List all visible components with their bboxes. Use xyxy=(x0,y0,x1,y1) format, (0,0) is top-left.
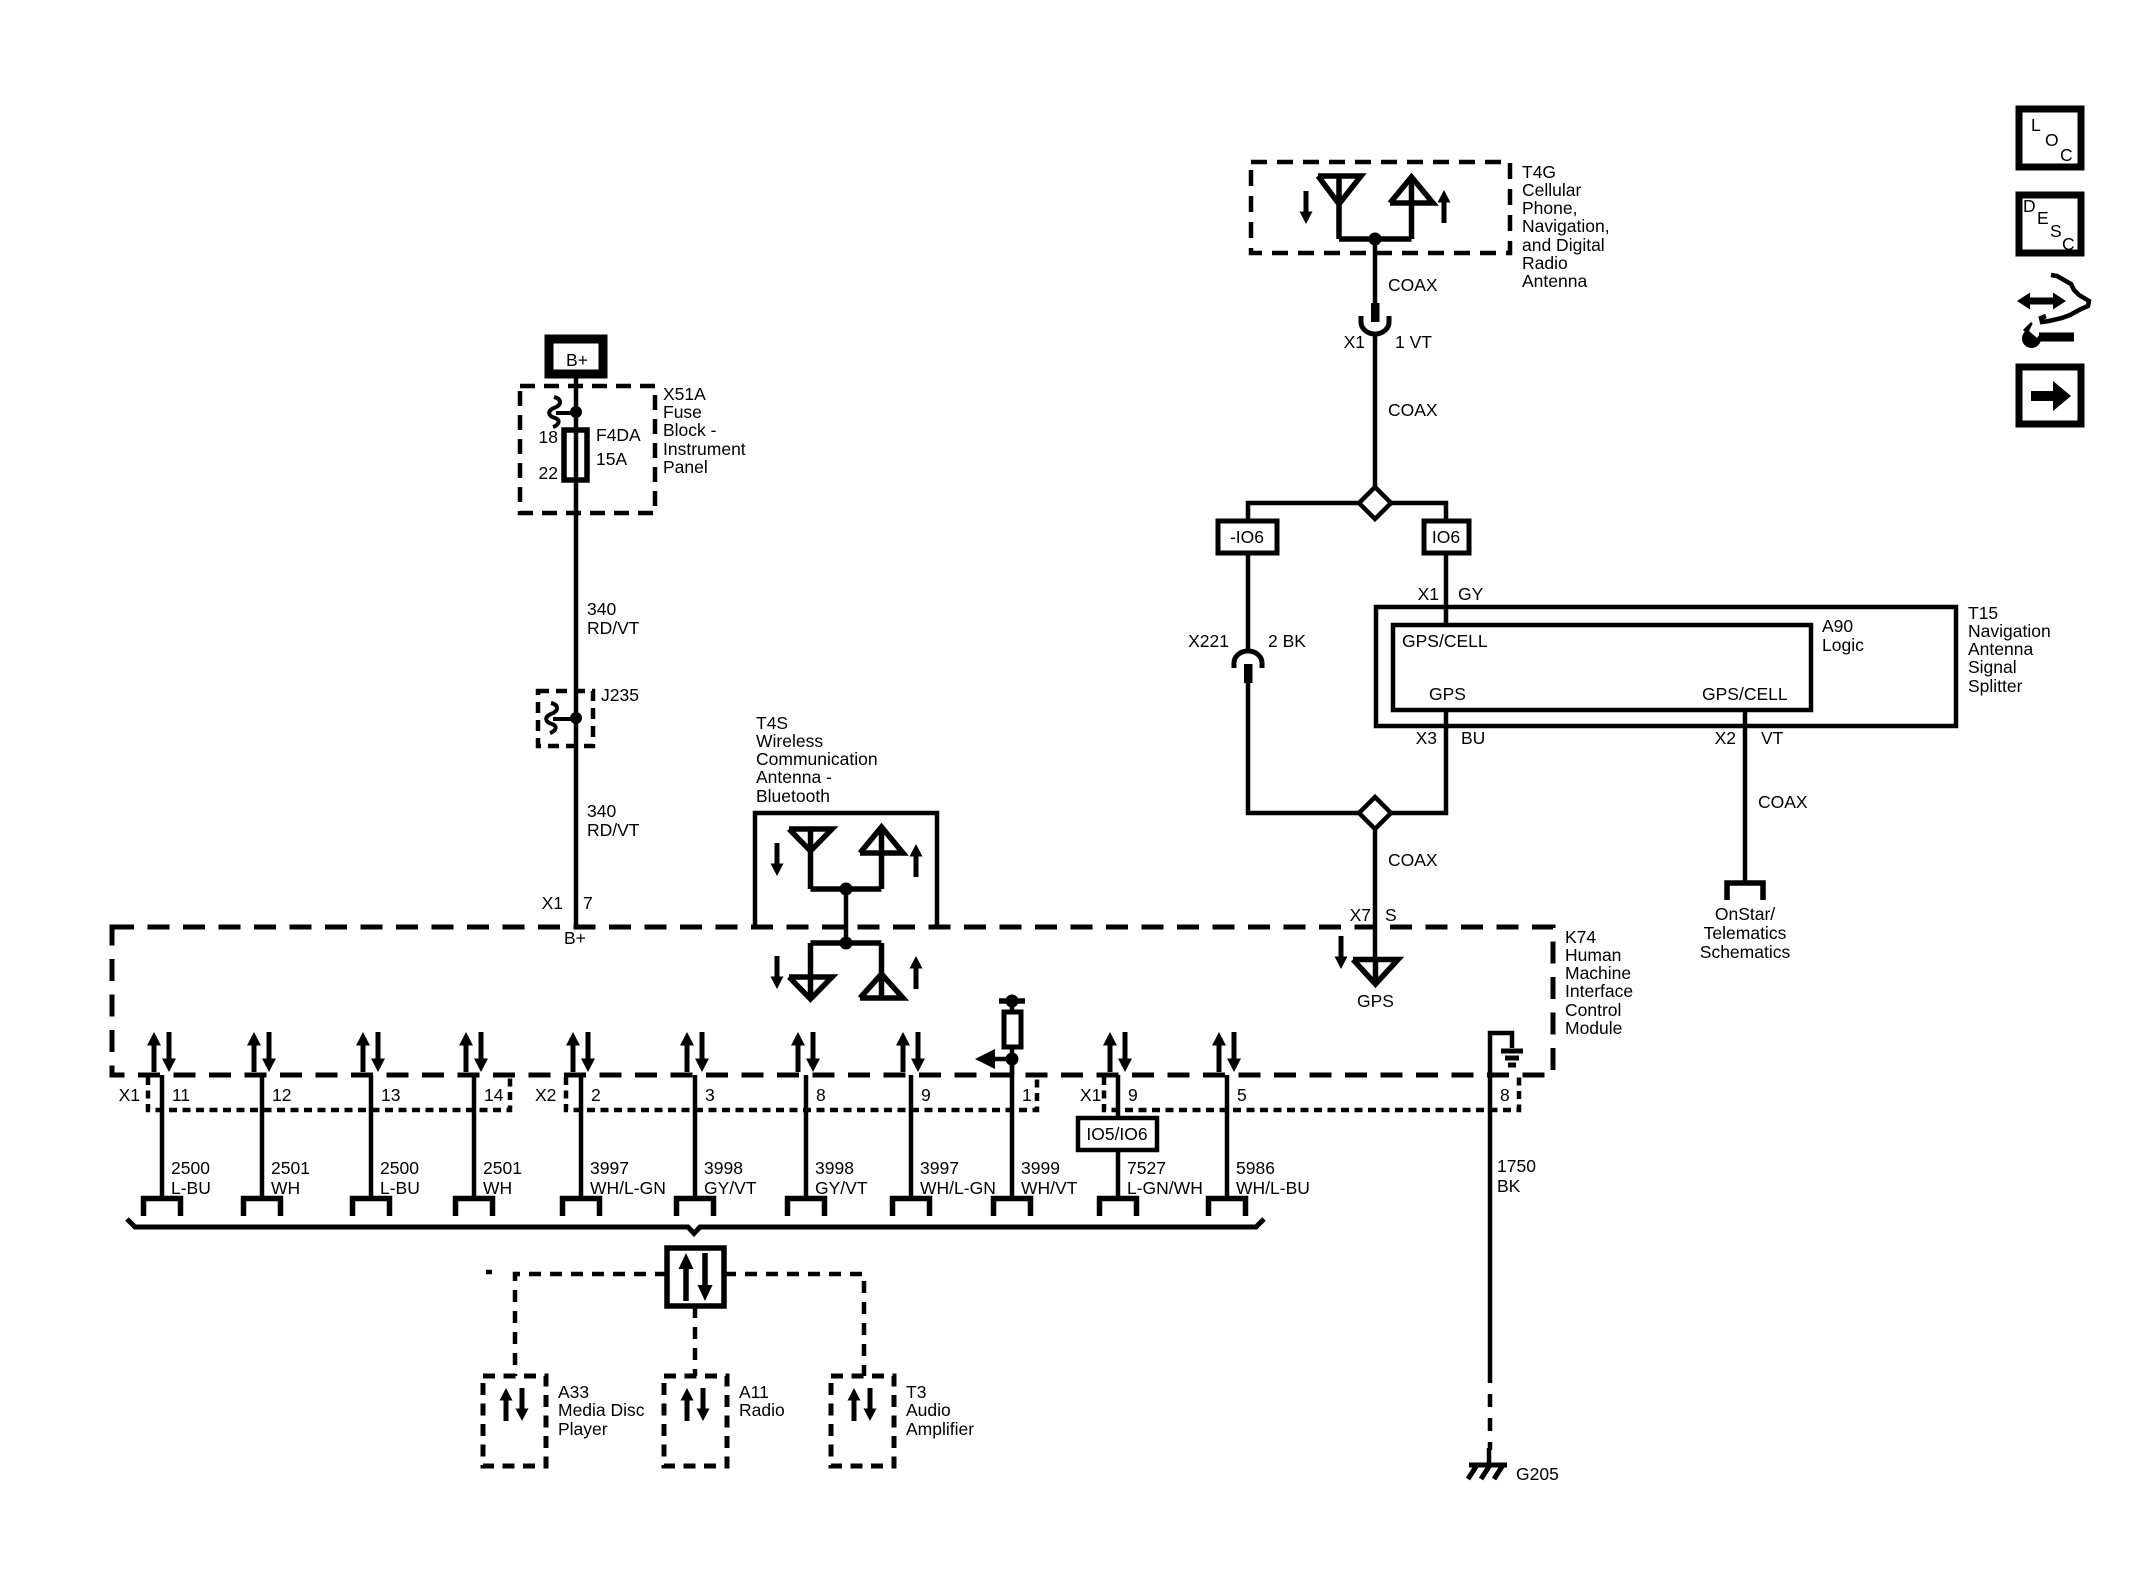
svg-text:1750: 1750 xyxy=(1497,1156,1536,1176)
svg-text:2501: 2501 xyxy=(483,1158,522,1178)
svg-text:Schematics: Schematics xyxy=(1700,942,1791,962)
svg-text:Machine: Machine xyxy=(1565,963,1631,983)
svg-text:GY/VT: GY/VT xyxy=(815,1178,868,1198)
svg-text:1 VT: 1 VT xyxy=(1395,332,1432,352)
dashed data links xyxy=(515,1274,667,1376)
svg-text:T15: T15 xyxy=(1968,603,1998,623)
svg-text:RD/VT: RD/VT xyxy=(587,618,640,638)
T4S up arrow xyxy=(910,844,923,877)
connector strip X1 (second) xyxy=(1104,1077,1519,1110)
wire IO6 to T15 xyxy=(1444,553,1449,626)
T4G up arrow xyxy=(1438,190,1451,223)
svg-text:22: 22 xyxy=(539,463,558,483)
svg-text:X1: X1 xyxy=(542,893,563,913)
svg-text:Amplifier: Amplifier xyxy=(906,1419,974,1439)
module K74 dashed box xyxy=(112,927,1553,1075)
svg-text:X1: X1 xyxy=(119,1085,140,1105)
svg-text:8: 8 xyxy=(1500,1085,1510,1105)
svg-text:X1: X1 xyxy=(1418,584,1439,604)
svg-text:Telematics: Telematics xyxy=(1704,923,1787,943)
svg-text:Antenna -: Antenna - xyxy=(756,767,832,787)
svg-text:9: 9 xyxy=(921,1085,931,1105)
off-page bracket to OnStar xyxy=(1727,883,1763,900)
junction diamond (top) xyxy=(1359,487,1391,519)
pin 5 wire 5986 WH/L-BU xyxy=(1225,1075,1230,1197)
svg-text:Instrument: Instrument xyxy=(663,439,746,459)
pin 2 wire 3997 WH/L-GN xyxy=(579,1075,584,1197)
svg-text:340: 340 xyxy=(587,599,616,619)
svg-text:A90: A90 xyxy=(1822,616,1853,636)
svg-text:WH/L-GN: WH/L-GN xyxy=(920,1178,996,1198)
svg-text:T4G: T4G xyxy=(1522,162,1556,182)
svg-text:C: C xyxy=(2060,145,2073,165)
svg-text:X51A: X51A xyxy=(663,384,706,404)
svg-text:GY/VT: GY/VT xyxy=(704,1178,757,1198)
resistor (termination) xyxy=(1004,1012,1021,1047)
svg-text:GPS/CELL: GPS/CELL xyxy=(1702,684,1788,704)
B+ power symbol xyxy=(549,339,603,374)
T4G transmit antenna symbol xyxy=(1390,177,1433,239)
GPS down arrow xyxy=(1335,936,1348,969)
svg-text:1: 1 xyxy=(1022,1085,1032,1105)
svg-text:Communication: Communication xyxy=(756,749,878,769)
junction diamond (bottom) xyxy=(1359,797,1391,829)
wire X2 VT xyxy=(1743,710,1748,883)
K74 internal receive antenna xyxy=(789,943,832,999)
pin 8 wire 3998 GY/VT xyxy=(804,1075,809,1197)
svg-text:Media Disc: Media Disc xyxy=(558,1400,645,1420)
svg-text:Signal: Signal xyxy=(1968,657,2017,677)
logic module A90 inner box xyxy=(1393,625,1811,710)
pin 11 wire 2500 L-BU xyxy=(160,1075,165,1197)
pin 8 (right) wire 1750 BK xyxy=(1488,1075,1493,1370)
svg-text:X3: X3 xyxy=(1416,728,1437,748)
K74 internal ground symbol (pin 8 right) xyxy=(1490,1033,1512,1075)
svg-text:X221: X221 xyxy=(1188,631,1229,651)
svg-text:J235: J235 xyxy=(601,685,639,705)
svg-text:2 BK: 2 BK xyxy=(1268,631,1306,651)
svg-text:18: 18 xyxy=(539,427,558,447)
svg-text:5: 5 xyxy=(1237,1085,1247,1105)
svg-text:GPS: GPS xyxy=(1429,684,1466,704)
forward arrow nav icon xyxy=(2019,367,2081,424)
svg-text:3: 3 xyxy=(705,1085,715,1105)
wire diamond to -IO6 xyxy=(1248,503,1359,521)
coax wire to splitter diamond xyxy=(1373,334,1378,488)
pin 12 wire 2501 WH xyxy=(260,1075,265,1197)
svg-text:COAX: COAX xyxy=(1388,275,1438,295)
K74 internal antenna joining wire xyxy=(811,940,882,946)
svg-text:L-BU: L-BU xyxy=(380,1178,420,1198)
svg-text:OnStar/: OnStar/ xyxy=(1715,904,1775,924)
T4S receive antenna symbol xyxy=(789,829,832,889)
connector strip X1 (pins 11-14) xyxy=(148,1077,510,1110)
connector terminal 18 clip inside X51A xyxy=(549,397,582,427)
svg-text:RD/VT: RD/VT xyxy=(587,820,640,840)
svg-text:Splitter: Splitter xyxy=(1968,676,2023,696)
svg-text:Player: Player xyxy=(558,1419,608,1439)
svg-text:D: D xyxy=(2023,196,2036,216)
option box IO5/IO6 xyxy=(1078,1118,1157,1150)
svg-text:Cellular: Cellular xyxy=(1522,180,1581,200)
svg-text:BU: BU xyxy=(1461,728,1485,748)
svg-text:X2: X2 xyxy=(1715,728,1736,748)
svg-text:11: 11 xyxy=(172,1085,190,1105)
svg-text:Navigation,: Navigation, xyxy=(1522,216,1610,236)
ground G205 xyxy=(1468,1448,1507,1479)
GPS antenna symbol in K74 xyxy=(1353,960,1398,985)
svg-text:Panel: Panel xyxy=(663,457,708,477)
pin 14 wire 2501 WH xyxy=(472,1075,477,1197)
svg-text:Antenna: Antenna xyxy=(1522,271,1587,291)
svg-text:Audio: Audio xyxy=(906,1400,951,1420)
svg-text:B+: B+ xyxy=(564,928,586,948)
wire X3 BU xyxy=(1391,710,1446,813)
svg-text:X7: X7 xyxy=(1350,905,1371,925)
splice J235 dashed box xyxy=(538,691,593,746)
T4G receive antenna symbol xyxy=(1318,176,1361,239)
svg-text:S: S xyxy=(1385,905,1397,925)
svg-text:WH: WH xyxy=(271,1178,300,1198)
coax wire T4G down xyxy=(1373,239,1378,305)
svg-text:13: 13 xyxy=(381,1085,400,1105)
svg-text:L: L xyxy=(2031,115,2041,135)
T4S joining wire xyxy=(811,886,882,892)
svg-text:Block -: Block - xyxy=(663,420,717,440)
svg-text:F4DA: F4DA xyxy=(596,425,641,445)
harness brace xyxy=(127,1219,1264,1234)
svg-text:E: E xyxy=(2037,208,2049,228)
svg-text:T3: T3 xyxy=(906,1382,926,1402)
DESC nav icon xyxy=(2019,195,2081,254)
T4G antenna joining wire xyxy=(1339,236,1412,242)
svg-text:2500: 2500 xyxy=(171,1158,210,1178)
svg-text:X1: X1 xyxy=(1080,1085,1101,1105)
pin 13 wire 2500 L-BU xyxy=(369,1075,374,1197)
pin 1 wire 3999 WH/VT xyxy=(1010,1059,1015,1197)
wire B+ to K74 X1-7 xyxy=(574,377,579,927)
splitter T15 outer box xyxy=(1376,607,1956,726)
serial data link symbol xyxy=(667,1248,724,1306)
svg-text:2: 2 xyxy=(591,1085,601,1105)
svg-text:WH: WH xyxy=(483,1178,512,1198)
K74 pin data arrows xyxy=(147,1032,176,1072)
svg-text:A33: A33 xyxy=(558,1382,589,1402)
T4G down arrow xyxy=(1300,191,1313,224)
svg-text:-IO6: -IO6 xyxy=(1230,527,1264,547)
svg-text:9: 9 xyxy=(1128,1085,1138,1105)
svg-text:Interface: Interface xyxy=(1565,981,1633,1001)
T4S solid box (open bottom) xyxy=(755,813,937,927)
fuse F4DA 15A xyxy=(564,430,587,480)
svg-text:C: C xyxy=(2062,234,2075,254)
pin 9 wire 3997 WH/L-GN xyxy=(909,1075,914,1197)
svg-text:and Digital: and Digital xyxy=(1522,235,1605,255)
pin 9 wire 7527 L-GN/WH xyxy=(1116,1075,1121,1197)
wire resistor to junction xyxy=(1010,1047,1015,1075)
wire X221 to bottom diamond xyxy=(1248,683,1359,813)
svg-text:X2: X2 xyxy=(535,1085,556,1105)
svg-text:K74: K74 xyxy=(1565,927,1596,947)
svg-text:Navigation: Navigation xyxy=(1968,621,2051,641)
svg-text:WH/VT: WH/VT xyxy=(1021,1178,1078,1198)
svg-text:Logic: Logic xyxy=(1822,635,1864,655)
svg-text:GPS: GPS xyxy=(1357,991,1394,1011)
svg-text:L-BU: L-BU xyxy=(171,1178,211,1198)
svg-text:B+: B+ xyxy=(566,350,588,370)
internal down arrow xyxy=(771,956,784,989)
LOC nav icon xyxy=(2019,109,2081,167)
svg-text:Radio: Radio xyxy=(1522,253,1568,273)
K74 internal antenna element with resistor (pin 1) xyxy=(999,995,1025,1013)
svg-text:GY: GY xyxy=(1458,584,1484,604)
K74 internal transmit antenna xyxy=(860,943,903,998)
svg-text:3997: 3997 xyxy=(590,1158,629,1178)
module T3 audio amplifier dashed box xyxy=(831,1376,894,1466)
pin 3 wire 3998 GY/VT xyxy=(693,1075,698,1197)
svg-text:7527: 7527 xyxy=(1127,1158,1166,1178)
svg-text:COAX: COAX xyxy=(1758,792,1808,812)
svg-text:3997: 3997 xyxy=(920,1158,959,1178)
module A33 media disc player dashed box xyxy=(483,1376,546,1466)
svg-text:15A: 15A xyxy=(596,449,627,469)
svg-text:GPS/CELL: GPS/CELL xyxy=(1402,631,1488,651)
svg-text:3999: 3999 xyxy=(1021,1158,1060,1178)
wire diamond to IO6 xyxy=(1391,503,1446,521)
svg-text:Wireless: Wireless xyxy=(756,731,823,751)
svg-text:Human: Human xyxy=(1565,945,1621,965)
svg-text:2501: 2501 xyxy=(271,1158,310,1178)
svg-text:IO5/IO6: IO5/IO6 xyxy=(1086,1124,1147,1144)
fuse block X51A dashed outline xyxy=(520,386,655,513)
wire T4S into K74 xyxy=(844,889,849,943)
svg-text:O: O xyxy=(2045,130,2059,150)
svg-text:5986: 5986 xyxy=(1236,1158,1275,1178)
module A11 radio dashed box xyxy=(664,1376,727,1466)
svg-text:3998: 3998 xyxy=(815,1158,854,1178)
wire -IO6 down xyxy=(1246,553,1251,650)
internal up arrow xyxy=(910,956,923,989)
svg-text:COAX: COAX xyxy=(1388,850,1438,870)
svg-text:7: 7 xyxy=(583,893,593,913)
svg-text:S: S xyxy=(2050,221,2062,241)
svg-text:X1: X1 xyxy=(1344,332,1365,352)
svg-text:Control: Control xyxy=(1565,1000,1621,1020)
option box IO6 xyxy=(1424,521,1469,553)
svg-text:COAX: COAX xyxy=(1388,400,1438,420)
svg-text:WH/L-BU: WH/L-BU xyxy=(1236,1178,1310,1198)
coax wire to GPS port xyxy=(1373,829,1378,960)
svg-text:Module: Module xyxy=(1565,1018,1622,1038)
svg-text:BK: BK xyxy=(1497,1176,1521,1196)
svg-text:8: 8 xyxy=(816,1085,826,1105)
svg-text:IO6: IO6 xyxy=(1432,527,1460,547)
svg-text:3998: 3998 xyxy=(704,1158,743,1178)
splice J235 clip symbol xyxy=(546,703,582,733)
svg-text:A11: A11 xyxy=(739,1382,769,1402)
svg-text:Phone,: Phone, xyxy=(1522,198,1577,218)
svg-text:L-GN/WH: L-GN/WH xyxy=(1127,1178,1203,1198)
svg-text:Radio: Radio xyxy=(739,1400,785,1420)
option box -IO6 xyxy=(1218,521,1277,553)
repair/diagnostic icon (arrow, outline, wrench) xyxy=(2017,275,2089,348)
T4S down arrow xyxy=(771,843,784,876)
svg-text:Fuse: Fuse xyxy=(663,402,702,422)
connector strip X2 xyxy=(566,1077,1037,1110)
svg-text:T4S: T4S xyxy=(756,713,788,733)
left-pointing feed arrow xyxy=(975,1049,1012,1069)
svg-text:340: 340 xyxy=(587,801,616,821)
svg-text:Antenna: Antenna xyxy=(1968,639,2033,659)
T4S transmit antenna symbol xyxy=(860,827,903,889)
inline connector X1 (male pin / female cup) xyxy=(1361,303,1389,334)
svg-text:12: 12 xyxy=(272,1085,291,1105)
svg-text:VT: VT xyxy=(1761,728,1784,748)
svg-text:Bluetooth: Bluetooth xyxy=(756,786,830,806)
antenna T4G dashed box xyxy=(1251,162,1510,253)
svg-text:G205: G205 xyxy=(1516,1464,1559,1484)
inline connector X221 xyxy=(1234,651,1262,683)
svg-text:WH/L-GN: WH/L-GN xyxy=(590,1178,666,1198)
svg-text:14: 14 xyxy=(484,1085,504,1105)
svg-text:2500: 2500 xyxy=(380,1158,419,1178)
